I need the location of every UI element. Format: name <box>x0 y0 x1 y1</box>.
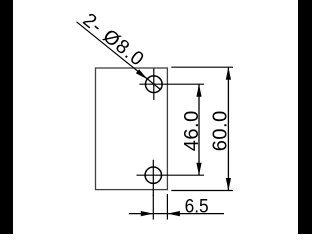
extension line 60 bottom <box>171 190 233 192</box>
hole H2 bottom <box>145 167 161 183</box>
leader line <box>77 22 161 90</box>
dim line 6.5 <box>129 213 224 215</box>
left black bar <box>0 0 13 234</box>
svg-text:6.5: 6.5 <box>185 196 209 218</box>
hole H2 centerline horizontal <box>137 174 205 176</box>
extension line 6.5 right <box>166 194 168 220</box>
extension line 6.5 left <box>152 195 154 220</box>
hole H2 centerline vertical <box>152 160 154 196</box>
dim line 60.0 <box>227 67 229 190</box>
arrow 46 top <box>196 84 201 97</box>
dim line 46.0 <box>198 84 200 175</box>
svg-text:60.0: 60.0 <box>209 110 231 151</box>
extension line 60 top <box>171 66 233 68</box>
hole H1 centerline horizontal <box>139 83 204 85</box>
arrow 46 bottom <box>196 163 201 176</box>
arrow 6.5 left <box>141 211 154 216</box>
right black bar <box>298 0 312 234</box>
arrow 60 top <box>226 67 231 80</box>
hole H1 centerline vertical <box>153 69 155 100</box>
plate outline <box>96 68 168 190</box>
arrow 60 bottom <box>226 178 231 191</box>
hole H1 top <box>145 76 162 93</box>
arrow 6.5 right <box>167 211 180 216</box>
svg-text:46.0: 46.0 <box>181 110 203 151</box>
leader arrowhead <box>136 69 147 79</box>
